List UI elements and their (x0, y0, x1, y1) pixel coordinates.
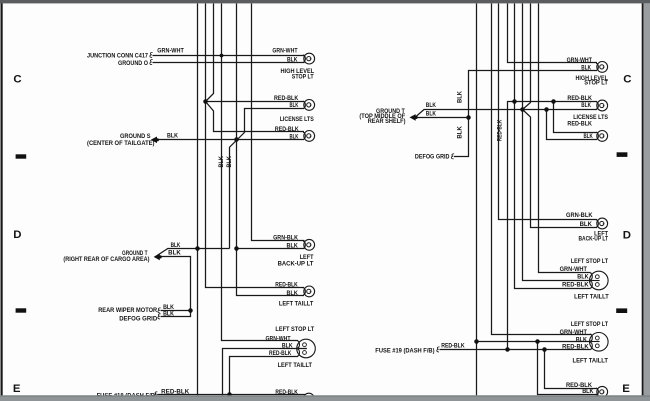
svg-text:(RIGHT REAR OF CARGO AREA): (RIGHT REAR OF CARGO AREA) (63, 256, 149, 263)
svg-text:D: D (623, 230, 631, 242)
svg-text:BLK: BLK (582, 388, 594, 395)
wire: FUSE #18 RED-BLK line at page bottom (157, 394, 305, 396)
svg-text:BLK: BLK (426, 111, 437, 118)
svg-text:LEFT TAILLT: LEFT TAILLT (279, 301, 314, 307)
lamp: dual bulb R6 LEFT TAILLT (590, 333, 609, 352)
svg-text:BLK: BLK (226, 156, 233, 168)
svg-text:BLK: BLK (581, 64, 591, 71)
scanner frame: top gray bar (0, 0, 650, 3)
left page border line (1, 0, 3, 396)
node J1: RED-BLK junction on V2 (203, 99, 208, 104)
svg-text:JUNCTION CONN C417: JUNCTION CONN C417 (87, 52, 149, 59)
wire: right vertical W3 x=499.2 corner to GRN-BLK bulb R4 (499, 4, 598, 220)
mark: dash right upper (617, 152, 628, 157)
connector: rear wiper motor squiggle (158, 308, 161, 313)
svg-text:LEFT TAILLT: LEFT TAILLT (278, 363, 313, 369)
svg-text:BLK: BLK (282, 343, 293, 350)
wire: BLK of bulb L2 left down diagonal through node J2 down to BLK ground line (230, 109, 305, 249)
svg-text:BLK: BLK (287, 56, 298, 63)
node: RED-BLK R2 on W5 (512, 99, 517, 104)
svg-text:BLK: BLK (290, 133, 299, 140)
svg-text:GRN-BLK: GRN-BLK (273, 234, 298, 241)
svg-text:REAR WIPER MOTOR: REAR WIPER MOTOR (98, 307, 157, 314)
svg-text:RED-BLK: RED-BLK (562, 282, 589, 289)
connector: defog grid right squiggle (451, 154, 454, 159)
svg-text:GRN-WHT: GRN-WHT (567, 57, 593, 64)
wire: BLK bulb R6 line from node on W1 right (477, 341, 591, 343)
svg-text:RED-BLK: RED-BLK (275, 282, 298, 289)
svg-text:DEFOG GRID: DEFOG GRID (415, 153, 450, 160)
svg-text:REAR SHELF): REAR SHELF) (368, 118, 406, 125)
svg-text:E: E (13, 383, 21, 395)
svg-text:BLK: BLK (584, 133, 594, 140)
svg-text:BLK: BLK (580, 221, 593, 228)
right page border line (642, 3, 644, 396)
svg-text:GRN-WHT: GRN-WHT (560, 266, 588, 273)
svg-text:BLK: BLK (457, 90, 464, 103)
wire: bulb L6 BLK left then down to page bottom (223, 349, 307, 396)
svg-text:D: D (13, 229, 21, 241)
svg-text:RED-BLK: RED-BLK (567, 120, 592, 127)
svg-text:LICENSE LTS: LICENSE LTS (280, 117, 314, 123)
wire: right vertical W6 x=522.5 corner to BLK bulb R5 (523, 4, 591, 281)
connector: fuse 19 squiggle (437, 347, 440, 352)
svg-text:RED-BLK: RED-BLK (161, 389, 190, 396)
wire: GROUND T right top BLK line from arrow diagonal then right to bulb R2 BLK (415, 110, 597, 118)
lamp: bulb R7 LEFT TAILLT bottom (596, 386, 608, 397)
svg-text:GRN-WHT: GRN-WHT (560, 329, 588, 336)
svg-text:BLK: BLK (577, 274, 589, 281)
mark: dash left upper (16, 154, 27, 158)
svg-text:BLK: BLK (168, 250, 181, 257)
lamp: bulb R2 LICENSE LTS (596, 100, 608, 111)
svg-text:BLK: BLK (167, 133, 179, 140)
wire: GROUND T lower BLK line right then down to wiper node (161, 257, 191, 311)
node: BLK bulb L4 on V5 (234, 246, 239, 251)
lamp: bulb L1 HIGH LEVEL STOP LT (303, 53, 315, 64)
node: BLK R6 at 537.8 (535, 339, 540, 344)
svg-text:RED-BLK: RED-BLK (274, 95, 299, 102)
svg-text:LEFT: LEFT (300, 255, 314, 261)
lamp: dual bulb L6 LEFT TAILLT (297, 339, 316, 358)
wire: right vertical W5 x=514.8 corner to RED-BLK bulb R5 (515, 4, 591, 289)
svg-text:LEFT STOP LT: LEFT STOP LT (571, 259, 608, 265)
node: ground T top line at 546.4 (544, 107, 549, 112)
svg-text:RED-BLK: RED-BLK (441, 343, 465, 350)
wire: BLK of bulb R1 left then down through ground T node to defog corner (454, 71, 597, 157)
svg-text:FUSE #19 (DASH F/B): FUSE #19 (DASH F/B) (375, 348, 434, 355)
mark: dash left lower (16, 308, 27, 312)
connector: defog grid squiggle (158, 314, 161, 319)
wire: branch from node J1 diagonal down then corner right RED-BLK to bulb L3 (206, 102, 305, 132)
wire: left vertical V2 x=205.6 down to corner then RED-BLK to bulb L5 (206, 4, 305, 288)
svg-text:BLK: BLK (426, 102, 437, 109)
svg-text:STOP LT: STOP LT (292, 74, 314, 80)
lamp: bulb R1 HIGH LEVEL STOP LT (596, 62, 608, 73)
svg-text:C: C (13, 73, 21, 85)
wire: GROUND S line BLK to bulb L3 (157, 139, 304, 141)
svg-text:RED-BLK: RED-BLK (567, 95, 592, 102)
wire: GRN-WHT from junction conn C417 to bulb L1 (153, 55, 305, 57)
lamp: dual bulb R5 LEFT TAILLT (590, 271, 609, 290)
wire: REAR WIPER MOTOR BLK line (161, 310, 191, 312)
node J5: ground T top junction at 522.5 (520, 107, 525, 112)
wire: BLK from ground O to bulb L1 (153, 62, 305, 64)
node: BLK R6 on W1 (474, 339, 479, 344)
wire: left vertical V6 x=251.5 down to corner GRN-BLK to bulb L4 (252, 4, 305, 241)
node: RED-BLK R2 at 553.8 (551, 99, 556, 104)
svg-text:RED-BLK: RED-BLK (562, 344, 589, 351)
svg-text:BLK: BLK (287, 242, 299, 249)
wire: from node at 544.8 down corner right RED-BLK to bulb R7 (545, 350, 598, 389)
wire: RED-BLK bulb R2 line from corner at x=507.3 vertical down to fuse 19 node (508, 102, 598, 350)
wire: right vertical W1 x=476.3 full height (476, 4, 478, 396)
wire: right vertical W8 x=538.9 corner to GRN-WHT bulb R5 (539, 4, 591, 273)
svg-text:BLK: BLK (287, 290, 299, 297)
wire: right vertical W4 x=507.3 corner to GRN-WHT bulb R1 (508, 4, 598, 63)
lamp: bulb R4 LEFT BACK-UP LT (596, 218, 608, 229)
svg-text:RED-BLK: RED-BLK (275, 126, 299, 133)
svg-text:GRN-WHT: GRN-WHT (157, 47, 184, 54)
node J2: GROUND S junction on V5 (234, 137, 239, 142)
svg-text:LEFT TAILLT: LEFT TAILLT (573, 359, 609, 365)
mark: dash right lower (616, 308, 627, 313)
connector: fuse 18 squiggle (155, 392, 158, 397)
node: GRN-WHT junction on V4 (220, 54, 224, 58)
svg-text:BLK: BLK (457, 126, 464, 139)
svg-text:LEFT TAILLT: LEFT TAILLT (574, 295, 609, 301)
node: rear wiper junction (188, 308, 193, 313)
wire: BLK from node on V5 to bulb L4 (237, 248, 305, 250)
wire: left vertical V5 x=237 down to corner BLK to bulb L5 (237, 4, 305, 296)
svg-text:GRN-BLK: GRN-BLK (566, 212, 593, 219)
svg-text:BLK: BLK (290, 102, 299, 109)
wire: RED-BLK from node J1 to bulb L2 (206, 101, 305, 103)
svg-text:BLK: BLK (163, 310, 174, 317)
wire: right vertical W2 x=491.8 corner to GRN-WHT bulb R6 (492, 4, 592, 335)
connector: junction conn C417 squiggle (150, 52, 153, 57)
svg-text:BLK: BLK (576, 336, 588, 343)
ground arrow: GROUND T left (154, 254, 162, 261)
wire: left vertical V3 x=213 ends with diagonal into node J1 (206, 4, 214, 102)
wire: RED-BLK from node at 553.8 down then right to bulb R3 (554, 102, 598, 133)
wire: DEFOG GRID BLK line right then up to wiper node (161, 311, 191, 317)
node: fuse 19 line at 544.8 (542, 347, 547, 352)
ground arrow: GROUND S (151, 137, 159, 144)
wire: GROUND T right lower BLK line to node on W9 (415, 117, 469, 119)
node: fuse 19 line at 507.3 (505, 347, 510, 352)
wire: left vertical V4 x=221.5 down to corner GRN-WHT to bulb L6 (222, 4, 299, 341)
node: fuse 18 junction (227, 392, 232, 397)
node: ground T lower line on W9 (466, 115, 471, 120)
scanner frame: bottom gray bar (0, 395, 650, 401)
wire: FUSE #19 RED-BLK line to bulb R6 (440, 349, 591, 351)
lamp: bulb R3 LICENSE LTS (596, 131, 608, 142)
wire: right vertical W7 x=530.2 diagonal into node J5 (523, 4, 531, 110)
svg-text:RED-BLK: RED-BLK (269, 350, 292, 357)
svg-text:LEFT STOP LT: LEFT STOP LT (275, 327, 314, 333)
svg-text:BLK: BLK (218, 156, 225, 168)
svg-text:RED-BLK: RED-BLK (496, 119, 503, 141)
lamp: bulb L4 LEFT BACK-UP LT (303, 239, 315, 250)
lamp: bulb L5 LEFT TAILLT (303, 286, 315, 297)
svg-text:BACK-UP LT: BACK-UP LT (579, 237, 609, 243)
lamp: bulb L3 LICENSE LTS (303, 131, 315, 142)
svg-text:GRN-WHT: GRN-WHT (272, 48, 297, 55)
wire: left vertical V1 x=198 full height (197, 4, 199, 396)
svg-text:STOP LT: STOP LT (584, 80, 608, 86)
svg-text:BLK: BLK (171, 242, 181, 249)
wire: from node at 537.8 down corner right BLK to bulb R7 (538, 342, 598, 395)
svg-text:RED-BLK: RED-BLK (275, 389, 298, 396)
wire: bulb L6 RED-BLK left then down to fuse 18 node (230, 357, 299, 395)
wire: GROUND T upper BLK line diagonal from arrow then right (156, 249, 230, 257)
svg-text:BLK: BLK (581, 102, 591, 109)
lamp: bulb L2 LICENSE LTS (303, 100, 315, 111)
wire: BLK from node at 546.4 down then right to bulb R3 (547, 110, 598, 140)
node: BLK ground line on V1 (195, 246, 200, 251)
lamp: bulb L7 bottom left partially hidden (303, 393, 314, 401)
svg-text:C: C (623, 73, 631, 85)
scanner frame: bottom bar top edge line (0, 395, 650, 397)
scanner frame: right gray strip (644, 3, 650, 401)
connector: ground O squiggle (150, 60, 153, 65)
wire: branch from node J5 diagonal down then corner right BLK to bulb R4 (523, 110, 598, 228)
ground arrow: GROUND T right (410, 114, 418, 121)
svg-text:(CENTER OF TAILGATE): (CENTER OF TAILGATE) (87, 140, 155, 147)
svg-text:GROUND S: GROUND S (120, 133, 151, 140)
svg-text:BACK-UP LT: BACK-UP LT (278, 262, 314, 268)
svg-text:LEFT STOP LT: LEFT STOP LT (571, 322, 608, 328)
svg-text:E: E (622, 383, 630, 395)
svg-text:GROUND O: GROUND O (118, 60, 148, 67)
svg-text:DEFOG GRID: DEFOG GRID (119, 315, 158, 322)
